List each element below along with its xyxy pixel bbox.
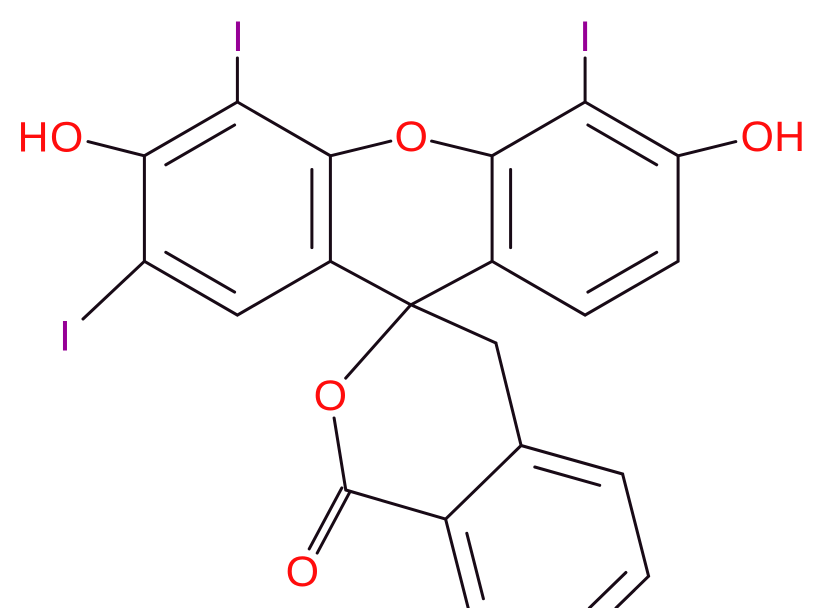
svg-text:I: I bbox=[232, 13, 244, 61]
svg-text:O: O bbox=[394, 113, 427, 161]
svg-text:O: O bbox=[740, 113, 773, 161]
svg-text:O: O bbox=[314, 372, 347, 420]
svg-text:I: I bbox=[59, 313, 71, 361]
svg-text:H: H bbox=[774, 113, 805, 161]
svg-text:O: O bbox=[286, 548, 319, 596]
svg-text:I: I bbox=[579, 13, 591, 61]
svg-text:H: H bbox=[17, 113, 48, 161]
svg-text:O: O bbox=[50, 113, 83, 161]
